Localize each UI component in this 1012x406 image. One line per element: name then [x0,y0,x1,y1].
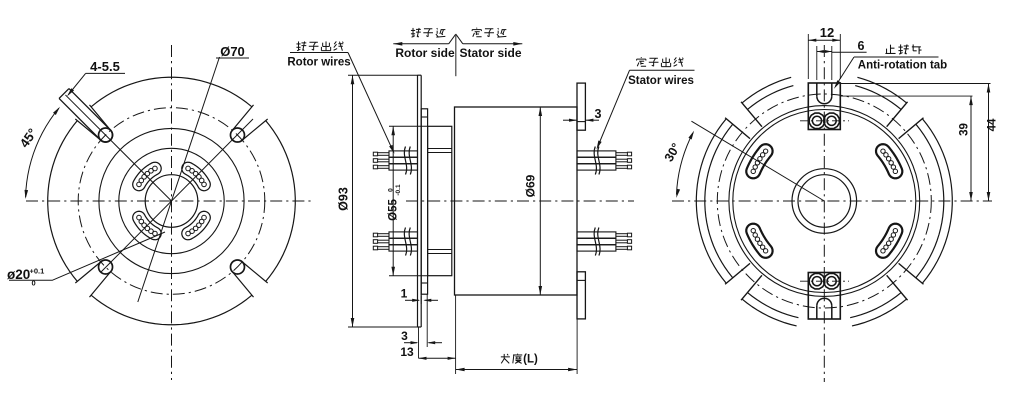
svg-text:+0.1: +0.1 [30,267,45,276]
svg-text:Stator side: Stator side [459,46,521,60]
svg-text:Ø93: Ø93 [337,187,351,211]
svg-text:13: 13 [400,345,414,359]
svg-text:6: 6 [858,39,865,53]
svg-text:Ø70: Ø70 [220,44,245,59]
svg-text:4-5.5: 4-5.5 [90,59,120,74]
svg-text:-0.1: -0.1 [395,184,402,196]
svg-text:0: 0 [388,188,395,192]
svg-text:Rotor wires: Rotor wires [287,57,350,69]
svg-text:Rotor side: Rotor side [395,46,455,60]
svg-text:Anti-rotation tab: Anti-rotation tab [858,60,947,72]
svg-text:12: 12 [820,25,834,40]
svg-text:3: 3 [595,107,602,121]
svg-text:30°: 30° [662,141,684,164]
svg-text:Ø55: Ø55 [388,199,400,221]
svg-text:39: 39 [959,123,971,136]
svg-text:44: 44 [987,118,999,131]
svg-text:0: 0 [32,279,36,288]
svg-text:3: 3 [401,329,408,343]
svg-text:1: 1 [401,287,408,301]
svg-text:45°: 45° [17,126,41,151]
svg-text:Ø69: Ø69 [524,174,538,197]
svg-text:(L): (L) [523,354,538,366]
svg-text:ø20: ø20 [7,267,30,282]
svg-text:Stator wires: Stator wires [628,75,694,87]
